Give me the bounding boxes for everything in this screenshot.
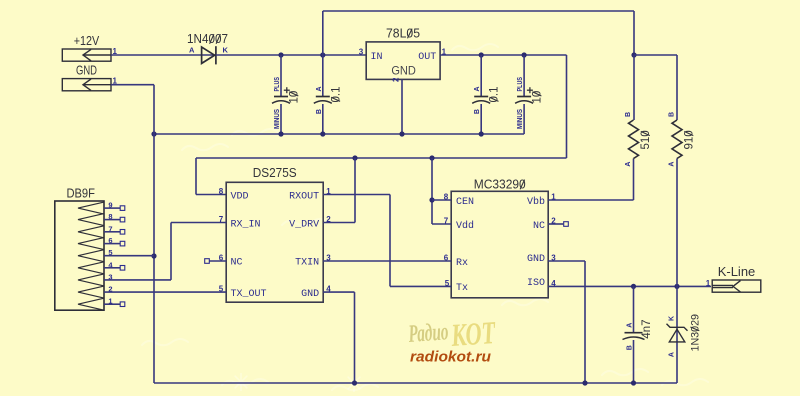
X3 pin 8 no-connect square <box>120 217 125 222</box>
wire U3 GND pin3 east <box>548 260 585 262</box>
X3 DB9F pin 2 contact chevron <box>78 286 104 298</box>
wire X3 pin 4 stub <box>104 267 120 269</box>
wire bottom ground rail <box>154 382 677 384</box>
svg-text:GND: GND <box>76 64 97 78</box>
X3 DB9F pin 6 contact chevron <box>78 238 104 250</box>
X3 DB9F pin 7 contact chevron <box>78 226 104 238</box>
wire X1 pin1 to D1 anode <box>111 54 216 56</box>
junction bottom rail / U3 GND <box>582 380 587 385</box>
X3 pin 6 no-connect square <box>120 241 125 246</box>
wire X3 pin 8 stub <box>104 219 120 221</box>
wire U2 TXIN pin3 to U3 Rx pin6 <box>323 260 451 262</box>
svg-text:radiokot.ru: radiokot.ru <box>410 349 491 366</box>
svg-text:Vbb: Vbb <box>527 196 545 208</box>
svg-text:Rx: Rx <box>456 258 468 269</box>
svg-text:B: B <box>316 109 323 114</box>
svg-text:B: B <box>627 345 634 350</box>
junction bottom rail / U2 GND <box>352 380 357 385</box>
capacitor C2 value 0.1 <box>314 97 332 104</box>
C3 value 0.1 <box>489 87 501 103</box>
D2 value 1N3029 <box>690 314 702 352</box>
wire C4 bottom lead <box>523 104 525 134</box>
wire ground riser vertical <box>153 85 155 383</box>
wire U3 Vbb pin1 east <box>548 199 633 201</box>
X3 DB9F pin 3 contact chevron <box>78 274 104 286</box>
wire junction to R2 top <box>634 54 677 56</box>
wire U2 GND pin4 east <box>323 291 354 293</box>
wire X3 pin2 to U2 TX_OUT pin5 <box>104 291 226 293</box>
U1 title 78L05 <box>386 27 420 41</box>
svg-text:CEN: CEN <box>456 197 474 208</box>
svg-text:PLUS: PLUS <box>517 77 524 92</box>
connector X1 +12V <box>62 49 111 61</box>
svg-text:+12V: +12V <box>74 34 100 48</box>
wire top rail horizontal <box>323 10 634 12</box>
wire X2 pin1 to ground riser <box>111 84 154 86</box>
svg-text:1N4007: 1N4007 <box>187 32 228 46</box>
junction +5V rail / C4 <box>522 52 527 57</box>
wire C5 bottom lead <box>633 340 635 383</box>
svg-text:DS275S: DS275S <box>253 166 297 180</box>
junction +5V rail / C3 <box>479 52 484 57</box>
svg-text:K: K <box>223 46 229 55</box>
junction ground rail / X2 riser <box>151 131 156 136</box>
resistor R1 value 510 <box>629 120 639 159</box>
svg-text:OUT: OUT <box>418 52 436 63</box>
diode D1 1N4007 <box>202 46 216 64</box>
wire U2 RXOUT pin1 east <box>323 194 390 196</box>
svg-text:A: A <box>316 86 323 91</box>
wire U3 Vdd pin7 <box>432 223 451 225</box>
svg-text:A: A <box>189 46 195 55</box>
wire RXOUT to U3 Tx pin5 <box>390 285 451 287</box>
svg-text:8: 8 <box>219 187 224 196</box>
svg-text:GND: GND <box>301 289 319 300</box>
X3 DB9F pin 8 contact chevron <box>78 214 104 226</box>
wire top rail left vertical <box>322 11 324 55</box>
capacitor C3 value 0.1 <box>472 97 490 104</box>
wire U3 CEN pin8 <box>432 199 451 201</box>
wire RXOUT jog down <box>389 195 391 287</box>
svg-text:A: A <box>669 352 676 357</box>
junction ground rail / U1 GND <box>399 131 404 136</box>
C1 plus sign <box>284 87 290 93</box>
svg-text:RX_IN: RX_IN <box>231 220 261 231</box>
wire U2 V_DRV pin2 east <box>323 222 355 224</box>
wire top rail right vertical <box>633 11 635 55</box>
wire C1 top lead <box>280 55 282 97</box>
svg-text:510: 510 <box>640 130 652 149</box>
wire C3 bottom lead <box>480 104 482 134</box>
svg-text:MC33290: MC33290 <box>474 178 526 192</box>
voltage regulator U1 78L05 body <box>366 42 440 80</box>
wire U2 NC stub <box>210 260 227 262</box>
svg-text:910: 910 <box>684 130 696 149</box>
wire X3 pin3 toward U2 RX_IN <box>104 279 171 281</box>
wire U1 GND pin2 to ground rail <box>401 79 403 134</box>
wire U3 GND down to bottom rail <box>584 261 586 383</box>
C1 value 10 <box>289 91 301 104</box>
zener diode D2 1N3029 <box>667 324 688 342</box>
wire +5V down right side <box>566 55 568 158</box>
wire to U2 RX_IN pin7 <box>171 222 226 224</box>
wire R2 bottom to ISO line <box>676 159 678 287</box>
X3 DB9F pin 1 contact chevron <box>78 298 104 310</box>
svg-text:1N3029: 1N3029 <box>690 314 702 352</box>
svg-text:A: A <box>669 162 676 167</box>
svg-text:B: B <box>669 112 676 117</box>
wire R1 top lead <box>633 55 635 120</box>
D1 value 1N4007 <box>187 32 228 46</box>
U3 title MC33290 <box>474 178 526 192</box>
svg-text:K: K <box>669 316 676 321</box>
junction ground rail / C1 <box>278 131 283 136</box>
svg-text:1: 1 <box>706 279 711 288</box>
wire X3 pin 9 stub <box>104 207 120 209</box>
svg-text:ISO: ISO <box>527 278 545 289</box>
capacitor C4 value 10 <box>515 97 533 104</box>
svg-text:MINUS: MINUS <box>274 109 281 129</box>
wire C4 top lead <box>523 55 525 97</box>
wire D2 through-lead <box>676 286 678 383</box>
resistor R2 value 910 <box>672 120 682 159</box>
svg-text:2: 2 <box>392 77 401 82</box>
svg-text:Tx: Tx <box>456 283 468 294</box>
X3 DB9F pin 9 contact chevron <box>78 202 104 214</box>
svg-text:IN: IN <box>371 52 383 63</box>
wire +5V distribution horizontal <box>196 157 567 159</box>
svg-text:Радио: Радио <box>407 318 449 348</box>
wire R2 top lead <box>676 55 678 120</box>
junction ground rail / C3 <box>479 131 484 136</box>
X3 pin 1 no-connect square <box>120 302 125 307</box>
svg-text:VDD: VDD <box>231 192 249 203</box>
wire X3 pin 7 stub <box>104 231 120 233</box>
wire U3 ISO pin4 to K-Line <box>548 285 711 287</box>
wire V_DRV jog up to +5V <box>354 158 356 223</box>
connector X3 DB9F body <box>55 201 104 310</box>
connector X2 GND <box>62 79 111 91</box>
junction +12V rail / C1 <box>278 52 283 57</box>
wire C2 top lead <box>322 55 324 97</box>
wire X3 pin 6 stub <box>104 243 120 245</box>
junction +5V / U3 CEN-Vdd <box>429 155 434 160</box>
wire X3 pin3 jog up <box>170 223 172 280</box>
svg-text:TX_OUT: TX_OUT <box>231 289 267 300</box>
svg-text:TXIN: TXIN <box>295 258 319 269</box>
capacitor C5 value 4n7 <box>623 333 645 340</box>
wire D1 cathode to U1 IN (+12V rail) <box>216 54 366 56</box>
svg-text:NC: NC <box>231 258 243 269</box>
wire Vbb up to R1 bottom <box>633 159 635 201</box>
wire +5V jog down to U3 CEN/Vdd <box>431 158 433 224</box>
wire X3 pin 1 stub <box>104 303 120 305</box>
svg-text:КОТ: КОТ <box>449 314 497 353</box>
svg-text:NC: NC <box>533 221 545 232</box>
junction +12V rail / C2 / top rail <box>320 52 325 57</box>
U2 NC no-connect square <box>205 259 210 264</box>
X3 DB9F pin 4 contact chevron <box>78 262 104 274</box>
svg-text:GND: GND <box>527 254 545 265</box>
svg-text:Vdd: Vdd <box>456 220 474 232</box>
X3 pin 4 no-connect square <box>120 266 125 271</box>
svg-text:K-Line: K-Line <box>718 265 756 279</box>
wire C1 bottom lead <box>280 104 282 134</box>
wire U2 GND down to bottom rail <box>354 292 356 383</box>
wire C5 top lead <box>633 286 635 332</box>
junction ground riser / DB9 pin5 <box>151 253 156 258</box>
svg-text:4n7: 4n7 <box>641 320 653 339</box>
R2 value 910 <box>684 130 696 149</box>
wire U1 OUT to +5V corner <box>440 54 566 56</box>
X3 DB9F pin 5 contact chevron <box>78 250 104 262</box>
svg-text:B: B <box>625 112 632 117</box>
svg-text:DB9F: DB9F <box>66 187 95 201</box>
IC U3 MC33290 body <box>451 191 548 297</box>
wire C3 top lead <box>480 55 482 97</box>
junction R1/R2 feed <box>631 52 636 57</box>
wire X3 pin5 to ground riser <box>104 255 154 257</box>
junction ISO / C5 <box>631 284 636 289</box>
X3 pin 9 no-connect square <box>120 206 125 211</box>
wire +5V to U2 VDD jog <box>195 158 197 195</box>
svg-text:3: 3 <box>359 48 364 57</box>
svg-text:PLUS: PLUS <box>274 77 281 92</box>
wire upper ground rail <box>154 133 524 135</box>
junction bottom rail / C5 <box>631 380 636 385</box>
C4 value 10 <box>532 91 544 104</box>
junction ISO / R2 / D2 <box>674 284 679 289</box>
R1 value 510 <box>640 130 652 149</box>
svg-text:V_DRV: V_DRV <box>289 220 319 231</box>
wire C2 bottom lead <box>322 104 324 134</box>
capacitor C1 value 10 <box>272 97 290 104</box>
svg-text:B: B <box>474 109 481 114</box>
svg-text:78L05: 78L05 <box>386 27 420 41</box>
C2 value 0.1 <box>330 87 342 103</box>
C4 plus sign <box>527 87 533 93</box>
wire U2 VDD pin8 <box>196 194 226 196</box>
connector X4 K-Line <box>712 280 761 292</box>
svg-text:GND: GND <box>391 64 416 78</box>
svg-text:A: A <box>474 86 481 91</box>
svg-text:RXOUT: RXOUT <box>289 192 319 203</box>
junction CEN/Vdd <box>429 197 434 202</box>
IC U2 DS275S body <box>226 182 323 302</box>
wire U3 NC stub <box>548 223 563 225</box>
svg-text:MINUS: MINUS <box>517 109 524 129</box>
junction +5V / U2 V_DRV <box>352 155 357 160</box>
svg-text:A: A <box>625 162 632 167</box>
svg-text:A: A <box>627 323 634 328</box>
U3 NC no-connect square <box>564 222 569 227</box>
X3 pin 7 no-connect square <box>120 230 125 235</box>
junction ground rail / C2 <box>320 131 325 136</box>
